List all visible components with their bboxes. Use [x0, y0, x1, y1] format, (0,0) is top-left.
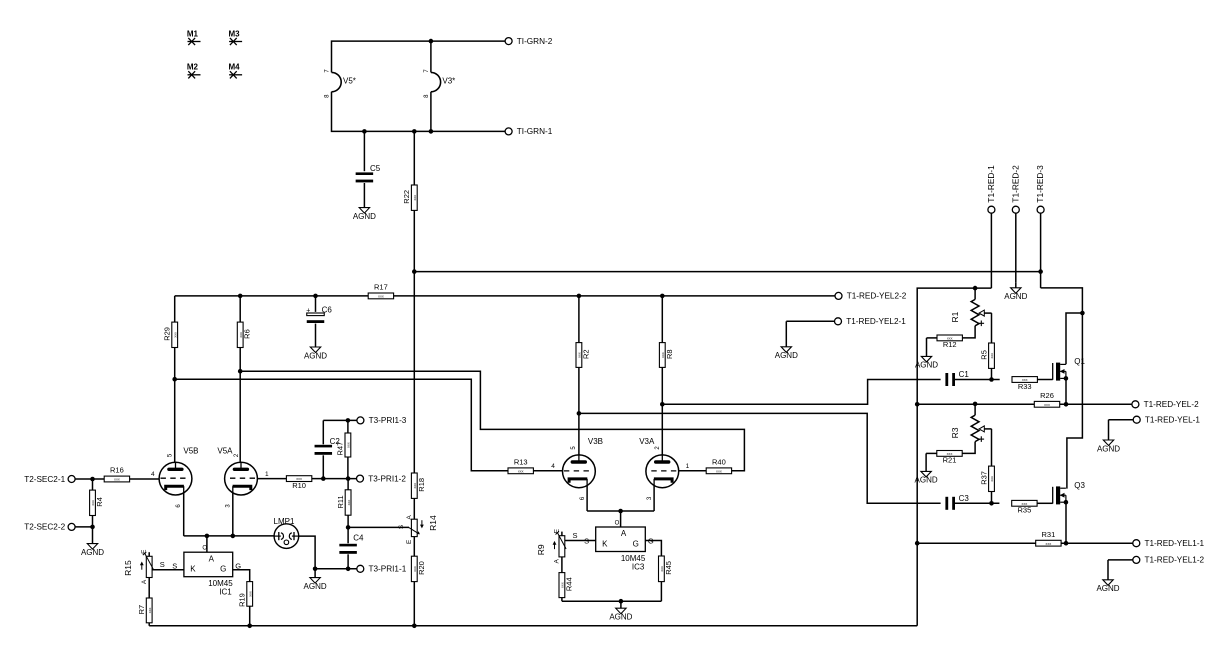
svg-text:G: G: [220, 565, 226, 574]
resistor R5: [979, 343, 994, 368]
svg-text:1: 1: [265, 471, 269, 478]
wire ground bus: [149, 625, 917, 627]
heater V3*: [424, 69, 456, 98]
potentiometer R3: [950, 402, 992, 442]
svg-text:R1: R1: [950, 311, 960, 322]
wire V3A anode lower: [660, 367, 665, 455]
op-amp IC3: [584, 520, 654, 571]
svg-text:E: E: [554, 528, 561, 533]
wire R5 to C1 node: [989, 368, 994, 381]
svg-text:C1: C1: [959, 370, 970, 379]
ground AGND yel-1: [1097, 420, 1120, 454]
svg-text:C4: C4: [353, 534, 364, 543]
resistor R26: [1034, 391, 1059, 407]
wire R1 to R12: [963, 326, 976, 338]
wire C1 to R33: [955, 379, 1000, 381]
svg-text:O: O: [615, 520, 620, 526]
resistor R33: [1012, 377, 1037, 391]
ground AGND R21: [915, 453, 938, 484]
resistor R6: [237, 322, 251, 347]
svg-text:R2: R2: [581, 349, 590, 359]
wire T1-RED-YEL2-1 to gnd: [786, 320, 834, 322]
resistor R20: [411, 556, 425, 581]
wire R19 to bus: [247, 606, 252, 628]
wire IC1 G to R19: [233, 570, 250, 582]
svg-text:xxx: xxx: [990, 476, 994, 482]
svg-text:A: A: [621, 529, 627, 538]
resistor R22: [402, 185, 417, 210]
svg-text:LMP1: LMP1: [274, 517, 295, 526]
wire R11 node to R14: [348, 524, 409, 529]
svg-text:AGND: AGND: [1004, 292, 1027, 301]
resistor R16: [104, 466, 129, 482]
svg-text:TI-GRN-1: TI-GRN-1: [517, 127, 553, 136]
tube V5A: [217, 446, 257, 507]
wire R10 to T3-PRI1-2: [312, 476, 357, 481]
resistor R11: [336, 479, 351, 530]
wire C3 to R35: [955, 502, 999, 504]
svg-text:AGND: AGND: [915, 476, 938, 485]
ground AGND T1-RED-2: [1004, 282, 1027, 301]
wire V5B anode lower: [172, 348, 177, 463]
wire R40 to V3A grid: [679, 470, 707, 472]
wire V5A grid to R10: [257, 471, 286, 479]
svg-text:AGND: AGND: [915, 361, 938, 370]
terminal T1-RED-3: [1035, 165, 1045, 213]
svg-text:R45: R45: [664, 561, 673, 575]
svg-text:E: E: [406, 539, 413, 544]
capacitor C5: [356, 164, 381, 182]
svg-text:M4: M4: [229, 63, 241, 72]
svg-text:+: +: [306, 307, 310, 314]
wire main vertical: [412, 210, 417, 628]
wire T1-RED-YEL1-2 to gnd: [1108, 559, 1133, 561]
wire R26 to terminal: [1060, 403, 1132, 405]
resistor R4: [90, 479, 104, 527]
wire IC1 S to R15: [152, 560, 184, 570]
svg-text:A: A: [554, 558, 561, 563]
svg-text:xxx: xxx: [1046, 542, 1052, 546]
terminal T1-RED-YEL2-2: [835, 292, 907, 301]
wire to TI-GRN-2: [429, 39, 506, 44]
lamp LMP1: [274, 517, 299, 548]
svg-text:K: K: [602, 539, 608, 548]
svg-text:R47: R47: [336, 442, 345, 456]
transistor Q3: [1053, 481, 1086, 505]
capacitor C3: [945, 494, 969, 510]
wire R12 to gnd: [927, 337, 937, 339]
svg-text:S: S: [398, 524, 405, 529]
terminal T1-RED-YEL2-1: [835, 317, 907, 326]
svg-text:4: 4: [151, 471, 155, 478]
wire V3B anode: [578, 296, 580, 343]
svg-text:R33: R33: [1018, 382, 1032, 391]
svg-text:R12: R12: [943, 340, 957, 349]
svg-text:V5*: V5*: [343, 77, 356, 86]
resistor R29: [163, 322, 178, 347]
wire R3 wiper to R37: [991, 429, 993, 467]
resistor R12: [937, 335, 962, 349]
svg-text:M2: M2: [187, 63, 199, 72]
wire IC1 anode: [206, 536, 208, 552]
wire R35 to Q3 gate: [1037, 502, 1053, 504]
resistor R40: [686, 457, 732, 473]
op-amp IC1: [172, 546, 241, 597]
wire V3B anode to C3: [577, 411, 941, 503]
mounting hole M1: [187, 29, 201, 45]
svg-text:S: S: [160, 560, 165, 569]
potentiometer R1: [950, 288, 992, 326]
wire T3-PRI1-3 line: [323, 418, 357, 423]
svg-text:R17: R17: [374, 283, 388, 292]
wire R44 down: [561, 598, 563, 602]
wire anode rail left: [175, 294, 369, 299]
svg-text:A: A: [209, 554, 215, 563]
svg-text:AGND: AGND: [304, 582, 327, 591]
resistor R17: [368, 283, 393, 299]
wire R21 to gnd: [926, 452, 937, 454]
svg-text:R15: R15: [123, 560, 133, 576]
capacitor C4: [339, 527, 364, 571]
svg-text:V3A: V3A: [639, 437, 655, 446]
svg-text:R31: R31: [1042, 530, 1056, 539]
svg-text:T1-RED-YEL2-1: T1-RED-YEL2-1: [846, 317, 906, 326]
tube V3A: [639, 437, 678, 500]
wire R9 to R44: [561, 557, 563, 573]
resistor R19: [238, 582, 253, 607]
resistor R10: [286, 476, 311, 490]
wire T2-SEC2-1 to R16: [75, 477, 104, 482]
svg-text:T3-PRI1-2: T3-PRI1-2: [368, 474, 406, 483]
svg-text:xxx: xxx: [347, 442, 351, 448]
svg-text:R21: R21: [943, 456, 957, 465]
svg-text:T3-PRI1-1: T3-PRI1-1: [369, 565, 407, 574]
svg-text:R7: R7: [137, 605, 146, 615]
wire R45 down: [660, 582, 662, 602]
wire V5A anode lower: [238, 348, 243, 463]
wire V5A anode to R40: [240, 371, 744, 471]
wire R3 to R21: [962, 442, 975, 454]
svg-text:AGND: AGND: [304, 351, 327, 360]
wire B+ to T1-RED-3: [414, 269, 1043, 274]
wire R33 to Q1 gate: [1037, 379, 1052, 381]
svg-text:AGND: AGND: [353, 212, 376, 221]
svg-text:R10: R10: [292, 481, 306, 490]
wire R16 to V5B grid: [130, 471, 159, 479]
wire R1 wiper to R5: [991, 313, 993, 343]
svg-text:R40: R40: [712, 457, 726, 466]
svg-text:V3*: V3*: [442, 77, 455, 86]
wire V3A anode: [661, 296, 663, 343]
ground AGND R12: [915, 338, 938, 370]
svg-text:R37: R37: [979, 471, 988, 485]
resistor R35: [1012, 500, 1037, 514]
wire IC3 S to R9: [565, 531, 596, 541]
svg-text:xxx: xxx: [990, 353, 994, 359]
wire R22 top: [413, 131, 415, 185]
terminal T1-RED-YEL1-2: [1133, 556, 1205, 565]
resistor R21: [937, 451, 962, 465]
svg-text:V5A: V5A: [217, 446, 233, 455]
terminal T1-RED-YEL1-1: [1133, 539, 1205, 548]
svg-text:R5: R5: [979, 350, 988, 360]
wire V5A anode: [239, 296, 241, 322]
ground AGND C6: [304, 324, 327, 361]
svg-text:R26: R26: [1040, 391, 1054, 400]
wire T1-RED-1 down: [990, 213, 992, 288]
resistor R18: [411, 473, 425, 498]
svg-text:T1-RED-YEL1-1: T1-RED-YEL1-1: [1145, 539, 1205, 548]
wire Q3 source down: [1064, 502, 1069, 545]
svg-text:xxx: xxx: [248, 591, 252, 597]
mounting hole M4: [229, 63, 243, 79]
transistor Q1: [1053, 357, 1086, 381]
svg-text:R22: R22: [402, 190, 411, 204]
potentiometer R9: [536, 528, 566, 563]
wire T3-PRI1-1 line: [313, 567, 357, 572]
svg-text:R18: R18: [417, 478, 426, 492]
wire LMP1 to pri1-1: [299, 536, 315, 569]
svg-text:R4: R4: [95, 497, 104, 507]
wire anode rail right: [393, 294, 835, 299]
svg-text:T1-RED-YEL2-2: T1-RED-YEL2-2: [847, 292, 907, 301]
mounting hole M2: [187, 63, 201, 79]
ground AGND C5: [353, 183, 376, 221]
svg-text:C5: C5: [370, 164, 381, 173]
wire V3 cathodes: [587, 486, 654, 528]
wire R31 to terminal: [1061, 542, 1133, 544]
terminal T3-PRI1-1: [357, 565, 407, 574]
wire T1-RED-2 down: [1015, 213, 1017, 282]
svg-text:R44: R44: [564, 577, 573, 591]
svg-text:R3: R3: [950, 427, 960, 438]
capacitor C2: [315, 420, 341, 478]
resistor R47: [336, 420, 351, 478]
ground AGND T2: [81, 527, 104, 557]
wire Q1 source down: [1064, 378, 1069, 406]
svg-text:O: O: [202, 546, 207, 552]
terminal T1-RED-1: [986, 165, 996, 213]
svg-text:AGND: AGND: [81, 548, 104, 557]
svg-text:G: G: [633, 539, 639, 548]
wire C5 feed: [363, 131, 365, 171]
wire R31 line: [917, 542, 1035, 544]
terminal T3-PRI1-2: [357, 474, 407, 483]
svg-text:xxx: xxx: [716, 469, 722, 473]
resistor R31: [1036, 530, 1061, 546]
svg-text:S: S: [572, 531, 577, 540]
wire to TI-GRN-1: [362, 129, 505, 134]
svg-text:AGND: AGND: [1097, 444, 1120, 453]
svg-text:xxx: xxx: [518, 469, 524, 473]
terminal T1-RED-YEL-1: [1133, 416, 1200, 425]
svg-text:A: A: [141, 579, 148, 584]
ground AGND yel2-1: [775, 321, 798, 360]
ground AGND IC3: [609, 601, 632, 621]
terminal T2-SEC2-1: [24, 475, 75, 484]
wire T2-SEC2-2 gnd: [75, 525, 95, 530]
svg-text:T2-SEC2-1: T2-SEC2-1: [24, 475, 65, 484]
wire R7 to bus: [148, 623, 150, 626]
svg-text:V5B: V5B: [183, 446, 198, 455]
svg-text:xxx: xxx: [413, 195, 417, 201]
wire V5B anode to R13: [175, 379, 508, 471]
svg-text:Q3: Q3: [1074, 481, 1085, 490]
svg-text:xxx: xxx: [1044, 403, 1050, 407]
svg-text:AGND: AGND: [609, 613, 632, 622]
svg-text:R16: R16: [110, 466, 124, 475]
svg-text:R8: R8: [665, 349, 674, 359]
svg-text:4: 4: [551, 463, 555, 470]
svg-text:T1-RED-YEL-1: T1-RED-YEL-1: [1145, 416, 1200, 425]
svg-text:R29: R29: [163, 327, 172, 341]
terminal T2-SEC2-2: [24, 523, 75, 532]
svg-text:C6: C6: [322, 305, 333, 314]
svg-text:T1-RED-YEL-2: T1-RED-YEL-2: [1144, 400, 1199, 409]
tube V5B: [159, 446, 198, 507]
resistor R8: [659, 343, 673, 368]
svg-text:C3: C3: [959, 494, 970, 503]
wire T1-RED-YEL-1 to gnd: [1109, 419, 1134, 421]
wire V3A anode to C1: [662, 380, 940, 405]
terminal T1-RED-2: [1010, 165, 1020, 213]
potentiometer R14: [406, 515, 438, 544]
ground AGND yel1-2: [1096, 560, 1119, 593]
wire V5 cathodes: [184, 493, 274, 538]
resistor R13: [508, 457, 555, 473]
terminal T1-RED-YEL-2: [1132, 400, 1199, 409]
terminal TI-GRN-2: [505, 37, 553, 46]
svg-text:R19: R19: [238, 593, 247, 607]
resistor R7: [137, 598, 152, 623]
svg-text:K: K: [190, 565, 196, 574]
tube V3B: [563, 437, 604, 500]
svg-text:T1-RED-1: T1-RED-1: [986, 165, 996, 203]
svg-text:R6: R6: [243, 329, 252, 339]
svg-text:R14: R14: [428, 515, 438, 531]
svg-text:M1: M1: [187, 29, 199, 38]
svg-text:A: A: [406, 515, 413, 520]
svg-text:T1-RED-3: T1-RED-3: [1035, 165, 1045, 203]
resistor R45: [659, 556, 673, 582]
wire R26 line: [917, 403, 1034, 405]
capacitor C1: [945, 370, 969, 386]
wire T1-RED-3 down: [1040, 213, 1042, 288]
svg-text:R35: R35: [1018, 506, 1032, 515]
capacitor C6: [306, 296, 332, 323]
wire IC3 gnd line: [562, 599, 662, 604]
mounting hole M3: [229, 29, 243, 45]
wire R13 to V3B grid: [533, 470, 562, 472]
terminal T3-PRI1-3: [357, 416, 407, 425]
resistor R37: [979, 466, 994, 491]
svg-text:xxx: xxx: [173, 332, 177, 338]
svg-text:TI-GRN-2: TI-GRN-2: [517, 37, 553, 46]
resistor R44: [559, 573, 573, 598]
wire R37 to C3 node: [989, 491, 994, 506]
svg-text:V3B: V3B: [588, 437, 603, 446]
svg-text:E: E: [141, 549, 148, 554]
wire V5B anode: [174, 296, 176, 322]
wire IC3 G to R45: [645, 541, 661, 557]
heater V5*: [324, 69, 356, 98]
svg-text:xxx: xxx: [148, 607, 152, 613]
svg-text:IC3: IC3: [632, 562, 645, 571]
svg-text:T1-RED-2: T1-RED-2: [1010, 165, 1020, 203]
svg-text:M3: M3: [229, 29, 241, 38]
svg-text:R11: R11: [336, 495, 345, 508]
wire Q1 drain feed: [1066, 313, 1082, 364]
svg-text:1: 1: [686, 463, 690, 470]
ground AGND pri1: [304, 569, 327, 591]
svg-text:xxx: xxx: [114, 478, 120, 482]
svg-text:xxx: xxx: [378, 294, 384, 298]
svg-text:IC1: IC1: [219, 588, 232, 597]
wire upper frame: [915, 286, 992, 626]
svg-text:R20: R20: [417, 561, 426, 575]
wire R15 to R7: [148, 578, 150, 599]
resistor R2: [576, 343, 590, 368]
svg-text:AGND: AGND: [1096, 584, 1119, 593]
terminal TI-GRN-1: [505, 127, 553, 136]
wire heater box: [332, 41, 431, 131]
svg-text:T1-RED-YEL1-2: T1-RED-YEL1-2: [1145, 556, 1205, 565]
svg-text:T3-PRI1-3: T3-PRI1-3: [369, 416, 407, 425]
wire V3B anode lower: [578, 367, 580, 455]
svg-text:AGND: AGND: [775, 351, 798, 360]
svg-text:T2-SEC2-2: T2-SEC2-2: [24, 523, 65, 532]
svg-text:R9: R9: [536, 544, 546, 555]
svg-text:xxx: xxx: [347, 500, 351, 506]
svg-text:Q1: Q1: [1074, 357, 1085, 366]
wire T1-RED-3 frame: [1041, 288, 1085, 489]
svg-text:R13: R13: [514, 457, 528, 466]
potentiometer R15: [123, 549, 153, 584]
